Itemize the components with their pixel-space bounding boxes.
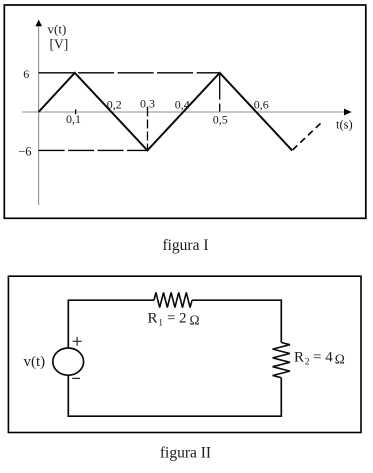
svg-text:R: R xyxy=(148,310,158,326)
svg-text:2: 2 xyxy=(305,357,310,367)
svg-text:R: R xyxy=(294,349,304,365)
resistor R1 xyxy=(154,293,192,308)
svg-text:0,2: 0,2 xyxy=(107,98,122,112)
svg-text:figura II: figura II xyxy=(160,445,211,462)
waveform continuation dashed xyxy=(293,123,322,151)
value label R2 = 4 ohm xyxy=(294,349,345,367)
level line +6 dashed xyxy=(39,72,220,74)
svg-text:v(t): v(t) xyxy=(24,354,46,370)
svg-text:[V]: [V] xyxy=(50,37,69,52)
guide dashed vertical at 0,3 xyxy=(147,108,149,151)
tick 0,1 xyxy=(75,109,77,114)
svg-text:=: = xyxy=(167,310,175,326)
axis t arrowhead xyxy=(344,109,352,116)
level line -6 dashed xyxy=(39,149,148,151)
guide dashed vertical at 0,5 xyxy=(219,75,221,113)
svg-text:0,3: 0,3 xyxy=(140,97,155,111)
resistor R2 xyxy=(273,343,290,378)
svg-text:−6: −6 xyxy=(18,145,31,159)
wire right-bottom xyxy=(68,375,281,416)
source V1 v(t) xyxy=(53,348,84,375)
svg-text:=: = xyxy=(313,349,321,365)
svg-text:6: 6 xyxy=(23,67,29,81)
wire top-right xyxy=(192,300,281,342)
svg-text:t(s): t(s) xyxy=(336,118,353,132)
wire top-left xyxy=(68,300,154,348)
svg-text:0,6: 0,6 xyxy=(254,98,269,112)
svg-text:0,1: 0,1 xyxy=(66,112,81,126)
figure I frame xyxy=(4,5,366,218)
axis t horizontal xyxy=(22,111,345,113)
svg-text:Ω: Ω xyxy=(335,351,345,366)
waveform v(t) solid xyxy=(39,73,293,151)
svg-text:Ω: Ω xyxy=(190,312,200,327)
polarity minus xyxy=(72,377,80,379)
svg-text:4: 4 xyxy=(325,349,333,365)
value label R1 = 2 ohm xyxy=(148,310,200,328)
figure II frame xyxy=(8,276,361,432)
svg-text:0,5: 0,5 xyxy=(213,113,228,127)
svg-text:2: 2 xyxy=(179,310,187,326)
axis v vertical xyxy=(38,26,40,205)
axis v arrowhead xyxy=(35,20,42,27)
svg-text:1: 1 xyxy=(158,318,163,328)
svg-text:figura I: figura I xyxy=(162,237,208,254)
svg-text:v(t): v(t) xyxy=(48,22,67,37)
polarity plus xyxy=(73,337,82,346)
svg-text:0,4: 0,4 xyxy=(175,98,190,112)
